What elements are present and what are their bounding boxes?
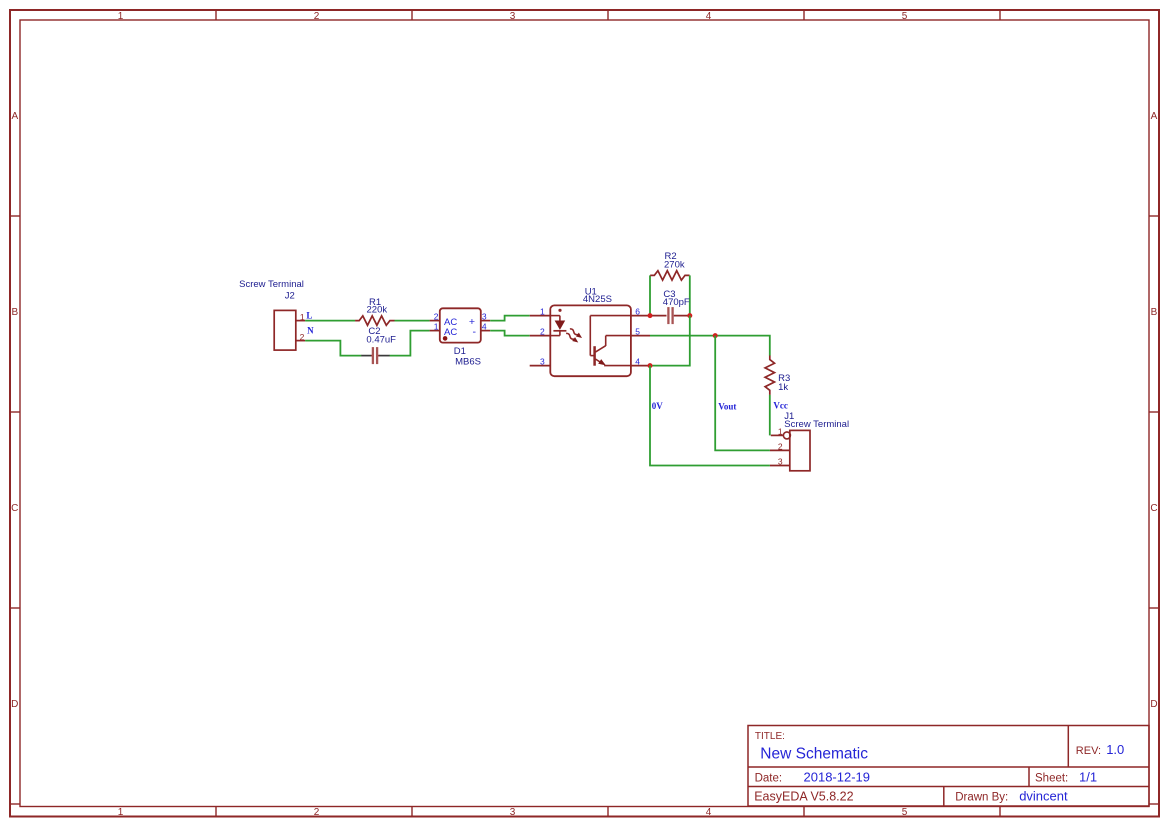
svg-text:New Schematic: New Schematic (760, 746, 868, 763)
U1 pin 3 stub (530, 365, 551, 367)
frame column ticks bottom (216, 807, 1000, 817)
svg-text:C: C (1150, 503, 1157, 514)
U1 pin 2 stub (530, 335, 551, 337)
svg-text:D: D (1150, 699, 1157, 710)
connector J2 screw terminal body (274, 310, 296, 350)
svg-text:Vout: Vout (718, 401, 736, 411)
svg-text:4N25S: 4N25S (583, 294, 612, 305)
wire R3 bottom to J1 pin1 (769, 395, 771, 436)
frame column numbers top (118, 11, 908, 22)
wire Vout node down to J1 pin2 (715, 336, 770, 451)
svg-text:N: N (307, 326, 314, 336)
svg-text:1/1: 1/1 (1079, 769, 1097, 784)
D1 pin 3 stub (481, 320, 490, 322)
frame column numbers bottom (118, 807, 908, 818)
svg-text:TITLE:: TITLE: (755, 731, 785, 742)
svg-text:3: 3 (778, 457, 783, 467)
D1 pin 1 stub (430, 330, 440, 332)
svg-text:2: 2 (300, 332, 305, 342)
svg-text:4: 4 (635, 357, 640, 367)
frame row letters right (1150, 111, 1157, 710)
svg-text:1: 1 (540, 307, 545, 317)
svg-text:EasyEDA V5.8.22: EasyEDA V5.8.22 (754, 790, 853, 804)
U1 light arrow 2 (565, 331, 580, 344)
svg-text:B: B (1151, 307, 1158, 318)
wire J2 pin2 down to C2 (305, 341, 361, 356)
D1 pin 4 stub (481, 330, 490, 332)
svg-text:C: C (11, 503, 18, 514)
svg-text:A: A (11, 111, 18, 122)
junction dot pin4 node (648, 363, 653, 368)
wire R2 right down to C3 right node (689, 275, 691, 315)
wire C2 to D1 pin1 (389, 331, 429, 356)
D1 pin 2 stub (430, 320, 440, 322)
svg-text:Sheet:: Sheet: (1035, 772, 1068, 784)
svg-text:J2: J2 (285, 291, 295, 302)
frame row ticks right (1149, 216, 1159, 804)
svg-text:2: 2 (434, 312, 439, 322)
svg-text:4: 4 (706, 807, 712, 818)
capacitor C2 (361, 347, 389, 364)
U1 phototransistor (590, 316, 631, 366)
U1 pin 4 stub (631, 365, 650, 367)
optocoupler U1 body (550, 305, 631, 376)
U1 LED symbol (550, 316, 566, 336)
svg-text:L: L (306, 310, 312, 320)
title block outline (748, 726, 1149, 807)
U1 pin 5 stub (631, 335, 650, 337)
svg-text:1k: 1k (778, 382, 788, 393)
svg-text:1.0: 1.0 (1106, 742, 1124, 757)
frame row ticks left (10, 216, 20, 804)
U1 orientation dot (558, 309, 561, 312)
wire pin5 to R3 top corner (650, 336, 770, 356)
svg-text:3: 3 (540, 357, 545, 367)
svg-text:270k: 270k (664, 260, 685, 271)
connector J1 screw terminal body (790, 430, 810, 470)
svg-text:Vcc: Vcc (773, 400, 788, 410)
J2 pin 2 stub (296, 340, 305, 342)
wire D1 pin4 to U1 pin2 (490, 331, 530, 336)
junction dot C3 right node (687, 313, 692, 318)
svg-text:0V: 0V (652, 401, 664, 411)
svg-text:470pF: 470pF (663, 297, 690, 308)
svg-text:3: 3 (510, 11, 516, 22)
U1 light arrow 1 (568, 327, 583, 340)
svg-text:B: B (11, 307, 18, 318)
svg-text:4: 4 (482, 322, 487, 332)
svg-text:3: 3 (510, 807, 516, 818)
svg-text:1: 1 (118, 11, 124, 22)
junction dot Vout node (713, 333, 718, 338)
wire J2 pin1 to R1 (305, 320, 355, 322)
frame column ticks top (216, 10, 1000, 20)
svg-text:4: 4 (706, 11, 712, 22)
svg-text:5: 5 (902, 807, 908, 818)
resistor R1 (355, 316, 394, 325)
svg-text:6: 6 (635, 307, 640, 317)
frame row letters left (11, 111, 18, 710)
svg-text:D: D (11, 699, 18, 710)
resistor R3 (765, 356, 774, 395)
junction dot pin6 node (648, 313, 653, 318)
svg-text:A: A (1151, 111, 1158, 122)
wire pin6 node up to R2 left (649, 275, 651, 315)
wire C3 right node down to pin4 row (650, 316, 690, 366)
svg-text:Drawn By:: Drawn By: (955, 792, 1008, 804)
svg-text:1: 1 (300, 312, 305, 322)
svg-text:MB6S: MB6S (455, 356, 481, 367)
J2 pin 1 stub (296, 320, 305, 322)
svg-text:AC: AC (444, 327, 457, 338)
capacitor C3 (650, 307, 690, 324)
J1 pin 2 stub (770, 449, 790, 451)
resistor R2 (650, 271, 689, 280)
svg-text:2: 2 (540, 327, 545, 337)
svg-text:Date:: Date: (755, 772, 783, 784)
svg-text:2: 2 (314, 11, 320, 22)
J1 pin 3 stub (770, 465, 790, 467)
U1 pin 6 stub (631, 315, 650, 317)
svg-text:1: 1 (118, 807, 124, 818)
svg-text:dvincent: dvincent (1019, 789, 1068, 804)
svg-text:3: 3 (482, 312, 487, 322)
D1 pin1 marker dot (443, 336, 448, 341)
svg-text:Screw Terminal: Screw Terminal (784, 419, 849, 430)
svg-text:Screw Terminal: Screw Terminal (239, 279, 304, 290)
bridge rectifier D1 body (440, 308, 481, 342)
svg-text:5: 5 (635, 327, 640, 337)
svg-text:220k: 220k (367, 304, 388, 315)
svg-text:-: - (473, 326, 477, 338)
svg-text:1: 1 (434, 322, 439, 332)
svg-text:1: 1 (778, 427, 783, 437)
svg-text:0.47uF: 0.47uF (366, 334, 396, 345)
wire pin4 node down to 0V row to J1 pin3 (650, 366, 770, 466)
svg-text:5: 5 (902, 11, 908, 22)
svg-text:2018-12-19: 2018-12-19 (804, 769, 871, 784)
svg-text:2: 2 (778, 442, 783, 452)
J1 pin 1 stub with circle (771, 432, 791, 439)
wire R1 to D1 pin2 (394, 320, 429, 322)
U1 pin 1 stub (530, 315, 551, 317)
svg-text:2: 2 (314, 807, 320, 818)
wire D1 pin3 to U1 pin1 (490, 316, 530, 321)
svg-text:REV:: REV: (1076, 745, 1101, 757)
